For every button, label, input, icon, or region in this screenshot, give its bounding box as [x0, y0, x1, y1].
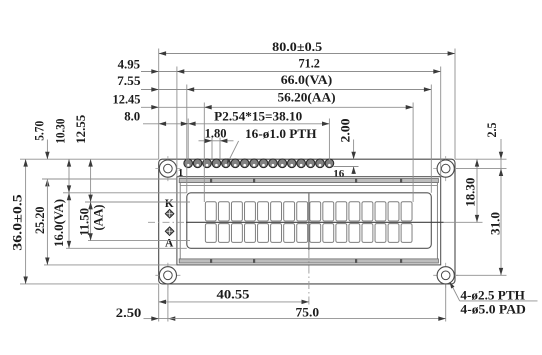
dimension 7.55	[117, 73, 159, 92]
mounting hole top-right (Ø2.5 PTH / Ø5.0 PAD)	[433, 156, 458, 181]
bezel inner top edge line	[180, 184, 437, 186]
svg-text:10.30: 10.30	[52, 119, 67, 144]
dimension 16.0(VA)	[51, 193, 71, 249]
extension line PCB left (top)	[158, 49, 160, 160]
svg-text:1.80: 1.80	[205, 125, 227, 140]
svg-text:80.0±0.5: 80.0±0.5	[272, 39, 323, 54]
backlight terminal A label	[165, 237, 174, 249]
extension line AA left (top)	[203, 103, 205, 203]
extension line VA top left	[63, 192, 187, 194]
svg-text:4-ø2.5 PTH: 4-ø2.5 PTH	[460, 287, 525, 302]
dimension 5.70	[32, 121, 50, 187]
svg-text:75.0: 75.0	[296, 304, 320, 319]
pin 1 label	[178, 167, 184, 179]
label 16-Ø1.0 PTH with leader to pin 5	[227, 126, 317, 164]
extension line bezel top left	[42, 178, 177, 180]
svg-text:56.20(AA): 56.20(AA)	[278, 89, 336, 104]
extension line AA top left	[85, 201, 190, 203]
extension line hole right (bottom)	[445, 285, 447, 322]
extension line pin row center right	[334, 166, 359, 168]
extension line hole bottom right	[456, 274, 507, 276]
extension line PCB bottom left	[20, 283, 159, 285]
backlight terminal K pad	[165, 209, 174, 218]
dimension 40.55	[159, 286, 309, 304]
svg-text:71.2: 71.2	[298, 55, 320, 70]
svg-text:7.55: 7.55	[117, 73, 141, 88]
extension line pin1	[187, 119, 189, 161]
svg-text:12.55: 12.55	[73, 114, 88, 143]
dimension 2.50	[116, 305, 176, 321]
label 4-Ø2.5 PTH / 4-Ø5.0 PAD with leader to bottom-right hole	[450, 282, 538, 317]
svg-text:11.50: 11.50	[76, 208, 91, 236]
PCB board outline	[159, 159, 455, 284]
extension line VA bottom left	[66, 247, 187, 249]
dimension 4.95	[118, 56, 159, 73]
backlight terminal A pad	[165, 227, 174, 236]
extension line pin16	[328, 119, 330, 161]
extension line centerline right	[444, 221, 483, 223]
backlight terminal K label	[165, 198, 174, 210]
dimension 31.0	[487, 159, 503, 275]
svg-text:31.0: 31.0	[487, 212, 502, 235]
extension line PCB right (top)	[454, 49, 456, 160]
svg-text:A: A	[165, 237, 174, 249]
svg-text:40.55: 40.55	[217, 286, 251, 301]
svg-text:16-ø1.0 PTH: 16-ø1.0 PTH	[245, 126, 317, 141]
svg-text:4-ø5.0 PAD: 4-ø5.0 PAD	[460, 302, 526, 317]
svg-text:66.0(VA): 66.0(VA)	[281, 72, 333, 87]
extension line bezel left (top)	[176, 67, 178, 177]
extension line bezel right (top)	[440, 67, 442, 177]
mounting hole top-left (Ø2.5 PTH / Ø5.0 PAD)	[155, 156, 180, 181]
dimension 12.45	[113, 91, 159, 109]
dimension 8.0	[124, 109, 188, 127]
vertical centerline	[308, 194, 310, 306]
mounting hole bottom-left (Ø2.5 PTH / Ø5.0 PAD)	[155, 263, 180, 288]
mounting hole bottom-right (Ø2.5 PTH / Ø5.0 PAD)	[433, 263, 458, 288]
dimension 10.30	[52, 119, 71, 193]
pin 16 label	[333, 168, 345, 180]
dimension 56.20(AA)	[159, 89, 413, 109]
dimension 75.0	[159, 304, 446, 321]
dimension 80.0±0.5	[159, 39, 455, 56]
dimension 36.0±0.5	[9, 159, 28, 284]
dimension P2.54*15=38.10	[188, 109, 329, 126]
dimension 11.50 (AA)	[76, 202, 105, 241]
bezel tab marks	[210, 179, 402, 263]
svg-text:2.00: 2.00	[338, 119, 353, 143]
svg-text:P2.54*15=38.10: P2.54*15=38.10	[214, 109, 302, 124]
extension line PCB top left	[20, 158, 159, 160]
dimension 71.2	[159, 55, 441, 73]
bezel bottom fold strip	[179, 259, 438, 263]
pin header holes 1-16 (16-Ø1.0 PTH)	[184, 159, 334, 168]
svg-text:8.0: 8.0	[124, 109, 140, 124]
extension line VA right (top)	[430, 85, 432, 193]
svg-text:25.20: 25.20	[32, 206, 47, 234]
dimension 2.5	[484, 122, 503, 159]
bezel inner frame line	[180, 179, 437, 262]
extension line PCB left (bottom)	[158, 284, 160, 322]
extension line PCB top right	[455, 158, 507, 160]
svg-text:12.45: 12.45	[113, 91, 141, 106]
svg-text:4.95: 4.95	[118, 56, 141, 71]
extension lines 1.80 pads	[212, 138, 220, 159]
svg-text:K: K	[165, 198, 174, 210]
bezel outer frame	[177, 177, 441, 265]
extension line hole top right	[456, 168, 507, 170]
dimension 2.00	[338, 119, 356, 175]
extension line AA right (top)	[412, 103, 414, 203]
horizontal centerline	[148, 221, 444, 223]
extension line AA bottom left	[88, 240, 190, 242]
character cell matrix 16x2 (AA)	[205, 202, 412, 243]
extension line hole left (bottom)	[167, 285, 169, 322]
svg-text:36.0±0.5: 36.0±0.5	[9, 194, 24, 251]
extension line bezel bottom left	[44, 264, 177, 266]
svg-text:2.5: 2.5	[484, 122, 499, 137]
dimension 25.20	[32, 179, 50, 265]
svg-text:18.30: 18.30	[463, 178, 478, 207]
dimension 12.55	[73, 114, 93, 202]
svg-text:16.0(VA): 16.0(VA)	[51, 199, 66, 247]
extension line VA left (top)	[186, 85, 188, 193]
svg-text:2.50: 2.50	[116, 305, 142, 320]
svg-text:(AA): (AA)	[91, 205, 106, 231]
svg-text:5.70: 5.70	[32, 121, 47, 141]
dimension 1.80	[199, 125, 234, 143]
dimension 18.30	[463, 159, 480, 222]
dimension 66.0(VA)	[159, 72, 432, 92]
bezel top fold strip	[179, 179, 438, 183]
display window (VA)	[187, 193, 431, 249]
